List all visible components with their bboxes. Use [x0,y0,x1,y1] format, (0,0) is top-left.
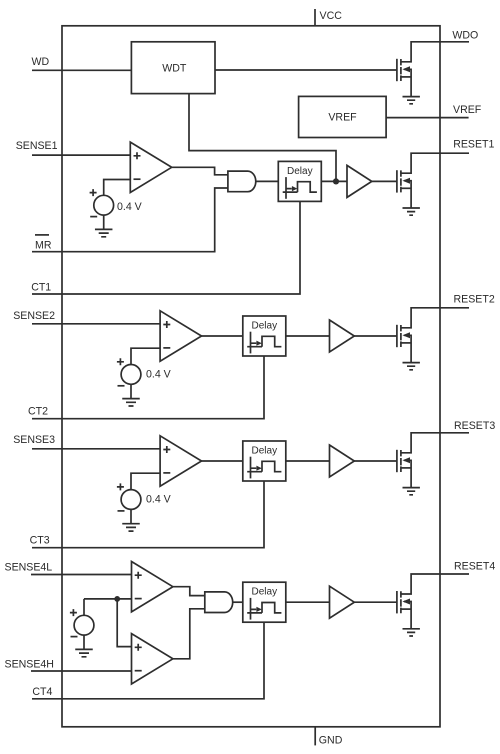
svg-text:CT4: CT4 [32,686,52,698]
svg-text:VCC: VCC [320,10,343,22]
svg-text:RESET2: RESET2 [454,294,495,306]
svg-text:VREF: VREF [328,112,357,124]
svg-text:RESET3: RESET3 [454,420,495,432]
svg-text:0.4 V: 0.4 V [146,494,172,506]
svg-text:0.4 V: 0.4 V [117,201,143,213]
svg-text:VREF: VREF [453,104,482,116]
svg-text:CT3: CT3 [30,535,50,547]
svg-text:0.4 V: 0.4 V [146,369,172,381]
svg-text:CT1: CT1 [31,281,51,293]
svg-text:GND: GND [319,735,343,747]
svg-text:WDO: WDO [452,30,478,42]
svg-text:SENSE4H: SENSE4H [5,658,54,670]
svg-text:SENSE3: SENSE3 [13,434,55,446]
svg-text:CT2: CT2 [28,406,48,418]
svg-text:WDT: WDT [162,63,187,75]
svg-text:SENSE2: SENSE2 [13,310,55,322]
svg-text:MR: MR [35,240,52,252]
svg-text:SENSE4L: SENSE4L [5,562,53,574]
svg-text:SENSE1: SENSE1 [16,140,58,152]
svg-text:RESET4: RESET4 [454,561,495,573]
svg-text:RESET1: RESET1 [453,138,494,150]
svg-text:WD: WD [32,56,50,68]
